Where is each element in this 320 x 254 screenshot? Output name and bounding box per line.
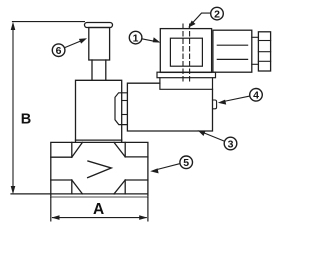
svg-text:A: A [93,201,104,218]
svg-text:1: 1 [133,33,139,45]
svg-text:2: 2 [214,9,220,21]
svg-text:3: 3 [228,138,234,150]
svg-text:6: 6 [56,45,62,57]
svg-text:4: 4 [253,90,259,102]
svg-text:B: B [21,112,31,128]
svg-text:5: 5 [183,157,189,169]
